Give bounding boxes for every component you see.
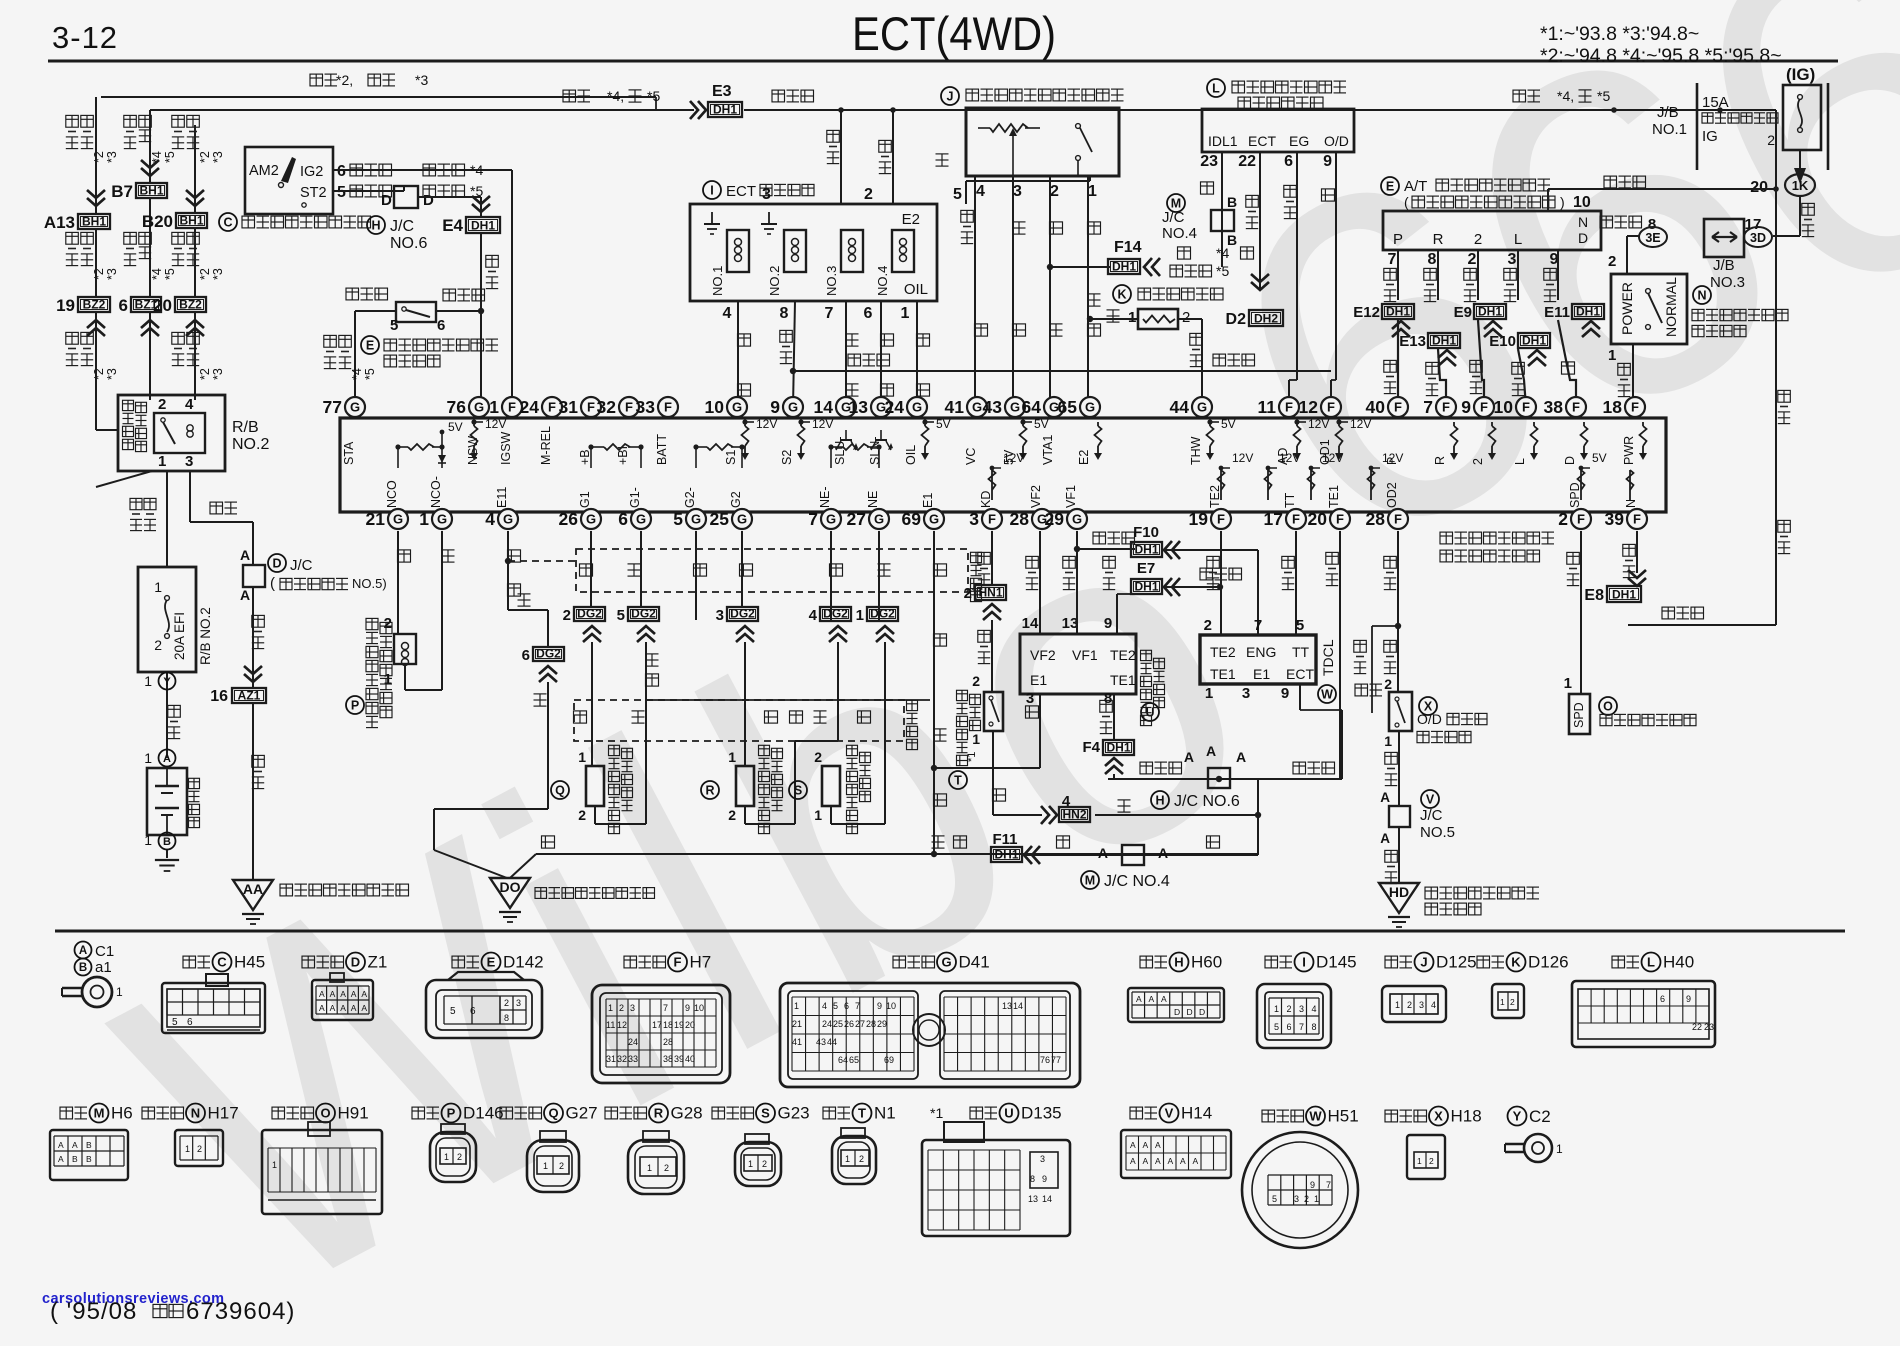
svg-text:DG2: DG2 bbox=[631, 607, 656, 621]
svg-text:*2: *2 bbox=[92, 268, 106, 280]
svg-text:5V: 5V bbox=[1034, 417, 1049, 431]
svg-text:32: 32 bbox=[597, 397, 617, 417]
label shiro-aka *2 shiro-midori *3 bbox=[310, 74, 323, 86]
svg-text:VF1: VF1 bbox=[1072, 647, 1098, 663]
svg-text:NO.5): NO.5) bbox=[352, 576, 387, 591]
svg-text:43: 43 bbox=[983, 397, 1003, 417]
wire pin23 to F14 bbox=[1221, 152, 1223, 267]
svg-text:D146: D146 bbox=[463, 1104, 504, 1123]
svg-text:E9: E9 bbox=[1454, 304, 1472, 321]
svg-text:10: 10 bbox=[694, 1003, 704, 1013]
wire relay pin3 white-black bbox=[189, 471, 191, 522]
svg-text:BH1: BH1 bbox=[179, 214, 203, 228]
svg-text:8: 8 bbox=[780, 305, 789, 322]
svg-text:A: A bbox=[361, 989, 367, 999]
svg-text:X: X bbox=[1434, 1109, 1443, 1124]
svg-text:2: 2 bbox=[197, 1144, 202, 1154]
ECU top pin 13G bbox=[871, 397, 891, 417]
connector Q G27 bbox=[500, 1107, 513, 1119]
svg-text:44: 44 bbox=[827, 1037, 837, 1047]
svg-text:4: 4 bbox=[1431, 1000, 1436, 1010]
svg-text:TE1: TE1 bbox=[1110, 672, 1136, 688]
svg-text:U: U bbox=[1004, 1106, 1013, 1121]
svg-text:C: C bbox=[217, 955, 227, 970]
ECU top pin 10F bbox=[1516, 397, 1536, 417]
svg-text:F: F bbox=[587, 400, 595, 415]
wire F10 DH1 bbox=[1077, 548, 1135, 550]
svg-text:DH2: DH2 bbox=[1254, 312, 1278, 326]
wire white-black to ground AA bbox=[252, 704, 254, 880]
svg-text:19: 19 bbox=[674, 1020, 684, 1030]
svg-text:1: 1 bbox=[1564, 675, 1572, 692]
svg-text:NE: NE bbox=[866, 491, 880, 508]
connector R G28 bbox=[605, 1107, 618, 1119]
svg-text:BZ2: BZ2 bbox=[83, 298, 106, 312]
svg-text:*2: *2 bbox=[92, 368, 106, 380]
svg-text:A: A bbox=[1158, 845, 1168, 861]
label W TDCL bbox=[1318, 685, 1336, 703]
connector D Z1 bbox=[302, 956, 315, 968]
connector W H51 bbox=[1262, 1110, 1275, 1122]
wire black-red from E3 bbox=[744, 109, 1776, 111]
svg-text:(IG): (IG) bbox=[1786, 65, 1815, 84]
svg-text:31: 31 bbox=[559, 397, 579, 417]
ECU bottom pin 19F bbox=[1211, 509, 1231, 529]
svg-text:22: 22 bbox=[1238, 153, 1256, 170]
svg-text:H18: H18 bbox=[1451, 1107, 1482, 1126]
svg-text:DH1: DH1 bbox=[1112, 260, 1136, 274]
svg-text:2: 2 bbox=[1767, 132, 1775, 148]
svg-text:T: T bbox=[954, 774, 962, 788]
svg-text:F: F bbox=[548, 400, 556, 415]
wire into relay diagonal bbox=[96, 471, 152, 487]
svg-text:TE1: TE1 bbox=[1210, 666, 1236, 682]
svg-text:2: 2 bbox=[814, 749, 822, 765]
ground AA left fender apron bbox=[233, 880, 273, 910]
svg-text:31: 31 bbox=[606, 1054, 616, 1064]
label P OD direct clutch speed sensor bbox=[346, 696, 364, 714]
svg-text:A: A bbox=[330, 989, 336, 999]
svg-text:2: 2 bbox=[158, 396, 166, 413]
svg-text:VTA1: VTA1 bbox=[1041, 435, 1055, 465]
U box wires bbox=[1039, 531, 1041, 634]
svg-text:24: 24 bbox=[628, 1037, 638, 1047]
svg-text:AM2: AM2 bbox=[249, 163, 279, 179]
svg-text:1: 1 bbox=[185, 1144, 190, 1154]
white jog G2 bbox=[695, 531, 697, 575]
svg-text:Y: Y bbox=[163, 676, 171, 688]
svg-text:33: 33 bbox=[636, 397, 656, 417]
svg-text:19: 19 bbox=[56, 296, 75, 315]
wire fuse down arrow to 20 1K bbox=[1799, 150, 1801, 168]
separator rule bbox=[55, 930, 1845, 933]
svg-text:4: 4 bbox=[1312, 1004, 1317, 1014]
svg-text:3: 3 bbox=[1294, 1194, 1299, 1204]
svg-text:*2: *2 bbox=[198, 151, 212, 163]
svg-text:*5: *5 bbox=[1597, 88, 1610, 104]
svg-text:C2: C2 bbox=[1529, 1107, 1551, 1126]
svg-text:NO.1: NO.1 bbox=[1652, 121, 1687, 138]
svg-text:28: 28 bbox=[1366, 509, 1386, 529]
svg-text:A: A bbox=[1155, 1156, 1161, 1166]
svg-text:2: 2 bbox=[384, 615, 392, 632]
svg-text:29: 29 bbox=[1045, 509, 1065, 529]
svg-text:1: 1 bbox=[748, 1159, 753, 1169]
svg-text:3-12: 3-12 bbox=[52, 20, 118, 55]
ECU bottom pin 28F bbox=[1388, 509, 1408, 529]
svg-text:J/C: J/C bbox=[1162, 209, 1185, 226]
wire 39F N green-red to E8 bbox=[1636, 531, 1638, 573]
connector A13 BH1 bbox=[87, 190, 105, 206]
fuse 15A electronics IG bbox=[1783, 85, 1821, 150]
wire 2F SPD to combination meter bbox=[1580, 531, 1582, 694]
svg-text:2: 2 bbox=[578, 807, 586, 823]
svg-text:21: 21 bbox=[366, 509, 386, 529]
connector I D145 bbox=[1265, 956, 1278, 968]
svg-text:G: G bbox=[474, 400, 484, 415]
ECU bottom pin 21G bbox=[388, 509, 408, 529]
svg-text:D: D bbox=[351, 955, 360, 970]
svg-text:L: L bbox=[1212, 82, 1220, 96]
svg-text:E2: E2 bbox=[1077, 450, 1091, 465]
svg-text:F: F bbox=[1285, 400, 1293, 415]
svg-text:DH1: DH1 bbox=[1386, 305, 1410, 319]
svg-text:B: B bbox=[1227, 232, 1237, 248]
svg-text:R: R bbox=[654, 1106, 664, 1121]
svg-text:D: D bbox=[272, 557, 281, 571]
svg-text:DH1: DH1 bbox=[1134, 580, 1158, 594]
svg-text:6: 6 bbox=[119, 296, 128, 315]
ECU NCO- 5V pullup and diode bbox=[441, 432, 443, 447]
ECU top pin 9F bbox=[1474, 397, 1494, 417]
wire 3F KD kickdown bbox=[991, 531, 993, 585]
svg-text:AA: AA bbox=[243, 881, 263, 897]
svg-text:5: 5 bbox=[450, 1006, 456, 1017]
svg-text:2: 2 bbox=[1468, 251, 1477, 268]
svg-text:G: G bbox=[1085, 400, 1095, 415]
svg-text:R: R bbox=[705, 784, 714, 798]
svg-text:6: 6 bbox=[1284, 153, 1293, 170]
connector T N1 *1 bbox=[823, 1107, 836, 1119]
svg-text:9: 9 bbox=[1686, 994, 1691, 1004]
svg-text:18: 18 bbox=[663, 1020, 673, 1030]
wire B20 column bbox=[194, 125, 196, 214]
ECU top pin 10G bbox=[727, 397, 747, 417]
svg-text:12V: 12V bbox=[1232, 451, 1253, 465]
svg-text:BH1: BH1 bbox=[139, 184, 163, 198]
ECU top pin 38F bbox=[1566, 397, 1586, 417]
connector F H7 bbox=[624, 956, 637, 968]
svg-text:F: F bbox=[1217, 512, 1225, 527]
svg-text:5V: 5V bbox=[1592, 451, 1607, 465]
svg-text:B: B bbox=[72, 1154, 78, 1164]
svg-text:5: 5 bbox=[337, 184, 346, 201]
svg-text:64: 64 bbox=[1022, 397, 1042, 417]
svg-text:12V: 12V bbox=[812, 417, 833, 431]
svg-text:38: 38 bbox=[663, 1054, 673, 1064]
wire 20F TE1 blue-white bbox=[1339, 531, 1341, 779]
svg-text:H: H bbox=[1155, 794, 1164, 808]
svg-text:12V: 12V bbox=[1382, 451, 1403, 465]
connector P D146 bbox=[412, 1107, 425, 1119]
svg-text:S: S bbox=[794, 784, 802, 798]
svg-text:1: 1 bbox=[489, 397, 499, 417]
svg-text:L: L bbox=[1647, 955, 1655, 970]
svg-text:A: A bbox=[72, 1140, 78, 1150]
svg-text:R: R bbox=[1433, 231, 1444, 248]
water temp sensor K bbox=[1113, 285, 1131, 303]
svg-text:9: 9 bbox=[1461, 397, 1471, 417]
svg-text:DG2: DG2 bbox=[536, 647, 561, 661]
svg-text:N: N bbox=[1697, 289, 1706, 303]
svg-text:NO.3: NO.3 bbox=[1710, 274, 1745, 291]
svg-text:12: 12 bbox=[617, 1020, 627, 1030]
svg-text:9: 9 bbox=[685, 1003, 690, 1013]
ECU top pin 77G bbox=[345, 397, 365, 417]
svg-text:F: F bbox=[1480, 400, 1488, 415]
svg-text:B20: B20 bbox=[142, 212, 173, 231]
blue-white horizontal wire bbox=[1108, 778, 1342, 780]
svg-text:11: 11 bbox=[606, 1020, 615, 1030]
label L cruise control computer bbox=[1207, 79, 1225, 97]
svg-text:B: B bbox=[79, 962, 87, 974]
svg-text:a1: a1 bbox=[95, 959, 112, 976]
svg-text:14: 14 bbox=[1022, 615, 1039, 632]
svg-text:DH1: DH1 bbox=[1576, 305, 1600, 319]
ECU bottom pin 3F bbox=[982, 509, 1002, 529]
svg-text:NORMAL: NORMAL bbox=[1663, 277, 1679, 337]
svg-text:TT: TT bbox=[1292, 644, 1310, 660]
svg-text:G: G bbox=[437, 512, 447, 527]
ECU top pin 32F bbox=[619, 397, 639, 417]
wire to HD ground bbox=[1398, 827, 1400, 883]
svg-text:1: 1 bbox=[144, 673, 152, 689]
pin 1 Y bbox=[166, 672, 168, 758]
svg-text:1: 1 bbox=[845, 1154, 850, 1164]
connector E D142 bbox=[452, 956, 465, 968]
svg-text:A: A bbox=[1184, 749, 1194, 765]
junction D J/C earth NO.5 bbox=[252, 522, 254, 565]
svg-text:ECT: ECT bbox=[1286, 666, 1314, 682]
svg-text:J/C: J/C bbox=[390, 218, 414, 235]
svg-text:*3: *3 bbox=[105, 368, 119, 380]
labels black-blue *4 black-red *5 bbox=[423, 164, 436, 176]
svg-text:A: A bbox=[1180, 1156, 1186, 1166]
svg-text:A: A bbox=[1380, 790, 1390, 805]
svg-text:TE2: TE2 bbox=[1208, 485, 1222, 508]
ECU bottom pin 39F bbox=[1627, 509, 1647, 529]
svg-text:44: 44 bbox=[1170, 397, 1190, 417]
svg-text:F14: F14 bbox=[1114, 239, 1142, 256]
connector J D125 bbox=[1385, 956, 1398, 968]
svg-text:25: 25 bbox=[710, 509, 730, 529]
svg-text:J/C NO.6: J/C NO.6 bbox=[1174, 793, 1240, 810]
svg-text:1: 1 bbox=[154, 579, 162, 595]
wire black-red *4 white *5 bus bbox=[150, 109, 694, 111]
svg-text:14: 14 bbox=[1042, 1194, 1052, 1204]
label I ECT solenoid bbox=[703, 181, 721, 199]
svg-text:H51: H51 bbox=[1328, 1107, 1359, 1126]
svg-text:ST2: ST2 bbox=[300, 185, 327, 201]
svg-text:2: 2 bbox=[563, 607, 571, 624]
wire 4G E11 brown bbox=[507, 531, 509, 610]
svg-text:E: E bbox=[366, 339, 374, 353]
svg-text:9: 9 bbox=[1042, 1174, 1047, 1184]
label E neutral start switch bbox=[361, 336, 379, 354]
svg-text:TE1: TE1 bbox=[1327, 485, 1341, 508]
engine control computer box bbox=[340, 418, 1666, 512]
svg-text:2: 2 bbox=[457, 1152, 462, 1162]
red-blue horizontal wire bbox=[793, 370, 1331, 372]
svg-text:13: 13 bbox=[1062, 615, 1079, 632]
ECT solenoid box bbox=[690, 204, 937, 301]
svg-text:4: 4 bbox=[185, 396, 194, 413]
svg-text:E1: E1 bbox=[921, 493, 935, 508]
ECU top pin 33F bbox=[658, 397, 678, 417]
ECU top pin 41G bbox=[967, 397, 987, 417]
svg-text:F: F bbox=[674, 955, 682, 970]
svg-text:NCO: NCO bbox=[385, 480, 399, 508]
svg-text:A: A bbox=[330, 1003, 336, 1013]
svg-text:IGSW: IGSW bbox=[499, 431, 513, 465]
svg-text:KD: KD bbox=[979, 491, 993, 508]
labels green *4 gray-green *5 bbox=[1178, 247, 1191, 259]
ECU top pin 7F bbox=[1436, 397, 1456, 417]
svg-text:E2: E2 bbox=[902, 211, 920, 228]
svg-text:12: 12 bbox=[1299, 397, 1319, 417]
svg-text:5: 5 bbox=[673, 509, 683, 529]
svg-text:6: 6 bbox=[1287, 1022, 1292, 1032]
wire E4 to pin 76G black-yellow bbox=[480, 234, 482, 407]
ground DO right cylinder head rear bbox=[434, 850, 507, 878]
svg-text:19: 19 bbox=[1189, 509, 1209, 529]
svg-text:A: A bbox=[351, 1003, 357, 1013]
svg-text:POWER: POWER bbox=[1619, 282, 1635, 335]
svg-text:DH1: DH1 bbox=[1432, 334, 1456, 348]
svg-text:12V: 12V bbox=[1279, 451, 1300, 465]
svg-text:J/B: J/B bbox=[1657, 104, 1679, 121]
svg-text:2: 2 bbox=[1407, 1000, 1412, 1010]
svg-text:12V: 12V bbox=[1322, 451, 1343, 465]
svg-text:G: G bbox=[503, 512, 513, 527]
ECU top pin 43G bbox=[1005, 397, 1025, 417]
svg-text:D2: D2 bbox=[1226, 311, 1247, 328]
ECU SLU SLN driver transistors bbox=[845, 430, 847, 440]
svg-text:40: 40 bbox=[1366, 397, 1386, 417]
wire kickdown to HN2 bbox=[992, 731, 994, 815]
svg-text:2: 2 bbox=[664, 1163, 669, 1173]
svg-text:1: 1 bbox=[1608, 347, 1616, 364]
engine control computer label bbox=[1440, 532, 1453, 544]
svg-text:*5: *5 bbox=[163, 151, 177, 163]
svg-text:SPD: SPD bbox=[1572, 702, 1586, 728]
svg-text:76: 76 bbox=[1040, 1055, 1050, 1065]
svg-text:G: G bbox=[732, 400, 742, 415]
wire brown from solenoid pin5 bbox=[965, 181, 967, 204]
svg-text:1: 1 bbox=[1088, 183, 1097, 200]
svg-text:3: 3 bbox=[1242, 685, 1250, 702]
wire black-red 2 bbox=[892, 110, 894, 204]
svg-text:H14: H14 bbox=[1181, 1104, 1212, 1123]
svg-text:7: 7 bbox=[855, 1001, 860, 1011]
ring terminal AB bbox=[82, 977, 112, 1007]
svg-text:NO.1: NO.1 bbox=[710, 266, 725, 296]
svg-text:*1:~'93.8 *3:'94.8~: *1:~'93.8 *3:'94.8~ bbox=[1540, 23, 1699, 45]
ECU internal pair resistors bbox=[395, 444, 400, 449]
label U diagnosis connector rotated bbox=[1141, 703, 1159, 721]
svg-text:7: 7 bbox=[1299, 1022, 1304, 1032]
svg-text:O/D: O/D bbox=[1324, 133, 1349, 149]
svg-text:D142: D142 bbox=[503, 953, 544, 972]
A/T wires to bus bbox=[1397, 320, 1399, 407]
svg-text:A: A bbox=[1193, 1156, 1199, 1166]
ECU bottom pin 26G bbox=[581, 509, 601, 529]
left label column green-orange/green-yellow *2*3 bbox=[172, 115, 185, 127]
svg-text:10: 10 bbox=[1573, 194, 1591, 211]
svg-text:6: 6 bbox=[437, 317, 445, 334]
battery ground bbox=[166, 850, 168, 858]
svg-text:E4: E4 bbox=[442, 216, 463, 235]
label H J/C NO.6 bbox=[1151, 791, 1169, 809]
connector 4 HN2 bbox=[1041, 806, 1057, 824]
wire black-white to J/C NO.5 bbox=[1398, 731, 1400, 806]
svg-text:A: A bbox=[1168, 1156, 1174, 1166]
svg-text:F10: F10 bbox=[1133, 524, 1159, 541]
svg-text:1: 1 bbox=[384, 671, 392, 688]
svg-text:E11: E11 bbox=[1544, 304, 1570, 321]
svg-text:6: 6 bbox=[470, 1006, 476, 1017]
svg-text:4: 4 bbox=[822, 1001, 827, 1011]
wire 17F TT 28F OD2 labels bbox=[1384, 556, 1397, 568]
ECU bottom pin 5G bbox=[686, 509, 706, 529]
svg-text:NO.6: NO.6 bbox=[390, 235, 427, 252]
svg-text:3D: 3D bbox=[1750, 231, 1766, 245]
svg-text:AZ1: AZ1 bbox=[238, 689, 261, 703]
svg-text:W: W bbox=[1309, 1109, 1322, 1124]
svg-text:1: 1 bbox=[1384, 733, 1392, 749]
ECU bottom pin 1G bbox=[432, 509, 452, 529]
svg-text:D125: D125 bbox=[1436, 953, 1477, 972]
connector E4 DH1 bbox=[472, 196, 490, 212]
svg-text:G2-: G2- bbox=[683, 487, 697, 508]
svg-text:20: 20 bbox=[685, 1020, 695, 1030]
svg-text:1: 1 bbox=[158, 453, 166, 470]
svg-text:5V: 5V bbox=[448, 420, 463, 434]
svg-text:F11: F11 bbox=[992, 831, 1017, 848]
svg-text:1: 1 bbox=[144, 832, 152, 848]
svg-text:A: A bbox=[1236, 749, 1246, 765]
svg-text:1: 1 bbox=[543, 1161, 548, 1171]
svg-text:10: 10 bbox=[705, 397, 725, 417]
svg-text:F: F bbox=[1442, 400, 1450, 415]
ECU bottom pin 27G bbox=[869, 509, 889, 529]
svg-text:G: G bbox=[1072, 512, 1082, 527]
svg-text:V: V bbox=[1165, 1106, 1174, 1121]
svg-text:D: D bbox=[1187, 1007, 1193, 1017]
ECU bottom pin 4G bbox=[498, 509, 518, 529]
wire pin9 purple bbox=[1335, 152, 1337, 380]
svg-text:9: 9 bbox=[1310, 1180, 1315, 1190]
svg-text:*3: *3 bbox=[211, 368, 225, 380]
ground HD instrument panel left bbox=[1379, 883, 1419, 913]
svg-text:NE-: NE- bbox=[818, 486, 832, 508]
svg-text:A: A bbox=[1136, 994, 1142, 1004]
svg-text:NO.2: NO.2 bbox=[767, 266, 782, 296]
svg-text:2: 2 bbox=[1474, 231, 1482, 248]
svg-text:A: A bbox=[351, 989, 357, 999]
svg-text:9: 9 bbox=[1104, 615, 1112, 632]
ECU top pin 11F bbox=[1279, 397, 1299, 417]
